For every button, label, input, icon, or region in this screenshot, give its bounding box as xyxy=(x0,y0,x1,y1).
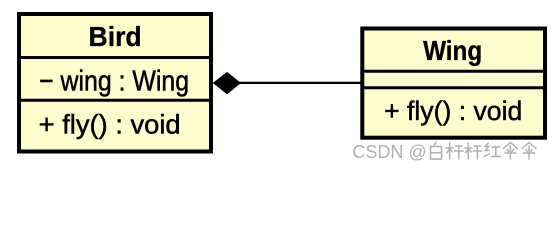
svg-text:Bird: Bird xyxy=(89,21,142,53)
hanzi san 2 xyxy=(522,143,537,161)
hanzi gan 2 xyxy=(465,143,483,160)
hanzi bai xyxy=(431,142,443,160)
class Wing method: + fly() : void xyxy=(384,96,522,126)
svg-text:+ fly() : void: + fly() : void xyxy=(39,109,181,140)
svg-text:CSDN @: CSDN @ xyxy=(352,142,426,162)
class Bird separator 2 xyxy=(18,99,212,102)
hanzi hong xyxy=(484,143,502,158)
svg-text:Wing: Wing xyxy=(423,34,482,66)
class Wing title separator 1 xyxy=(361,70,546,73)
class Bird box xyxy=(19,14,211,152)
class Bird title text xyxy=(89,21,142,53)
wire: composition association line Bird-Wing xyxy=(239,82,361,84)
class Wing title text xyxy=(423,34,482,66)
class Bird method: + fly() : void xyxy=(39,109,181,140)
class Wing box xyxy=(362,29,545,138)
class Bird title separator 1 xyxy=(18,56,212,59)
svg-text:+ fly() : void: + fly() : void xyxy=(384,96,522,126)
hanzi gan 1 xyxy=(446,143,464,160)
hanzi san 1 xyxy=(503,143,518,161)
class Wing separator 2 (empty attributes compartment) xyxy=(361,86,546,89)
watermark hanzi 白杆杆红伞伞 (drawn as strokes) xyxy=(431,142,538,160)
svg-text:− wing : Wing: − wing : Wing xyxy=(39,65,189,97)
composition filled diamond at Bird xyxy=(213,72,241,94)
watermark CSDN text xyxy=(352,142,427,163)
class Bird attribute: - wing : Wing xyxy=(39,65,189,97)
